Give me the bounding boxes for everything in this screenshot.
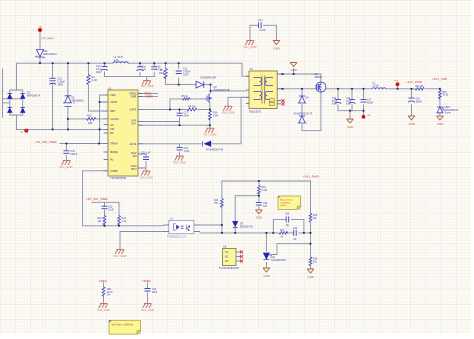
wire opto cathode gnd (120, 232, 163, 250)
svg-text:GND: GND (256, 215, 262, 219)
resistor R15 (258, 185, 261, 194)
svg-text:47uF: 47uF (346, 101, 352, 103)
wire C15 column (153, 63, 155, 76)
wire TIMER part (147, 283, 149, 304)
capacitor C15o (361, 100, 367, 103)
svg-text:Green: Green (445, 112, 452, 115)
svg-text:1.3k: 1.3k (122, 220, 127, 223)
svg-text:1.5nF: 1.5nF (184, 150, 191, 153)
ground U4 (263, 268, 270, 272)
capacitor C23 (102, 206, 108, 209)
wire VDD column (439, 89, 441, 116)
wire bridge frame (10, 90, 23, 129)
transformer T1 body (249, 71, 277, 109)
node snubber junctions (178, 84, 180, 86)
svg-text:SMAJ58CA: SMAJ58CA (72, 100, 85, 103)
wire Q2 drain (211, 85, 246, 93)
svg-text:D9 BZT52C16-7F: D9 BZT52C16-7F (294, 112, 313, 115)
svg-text:R11 0R: R11 0R (416, 86, 424, 88)
wire R9 row (143, 110, 210, 111)
svg-text:DRT: DRT (110, 109, 116, 113)
wire C21 column (143, 154, 147, 171)
svg-text:ISO_GND: ISO_GND (244, 45, 257, 49)
wire cap return (338, 111, 364, 119)
svg-text:+12V_PWR: +12V_PWR (406, 80, 423, 84)
connector U5 body (223, 249, 237, 266)
svg-text:C20: C20 (285, 214, 290, 216)
svg-text:PS2561DL1-1-V: PS2561DL1-1-V (167, 235, 186, 239)
wire opto collector (200, 224, 222, 226)
svg-text:GND: GND (437, 122, 443, 126)
svg-text:1.2A: 1.2A (114, 59, 119, 62)
capacitor C10 bulk (101, 67, 108, 71)
svg-text:1uF: 1uF (263, 206, 268, 208)
wire T1 pin4 to gnd (228, 97, 246, 106)
wire R24 column (118, 202, 120, 226)
svg-text:ISO_GND: ISO_GND (60, 165, 73, 169)
svg-text:TIMER: TIMER (142, 279, 151, 283)
svg-text:ISO_GND: ISO_GND (114, 254, 127, 258)
resistor R16 (309, 213, 312, 222)
IC U1 pins (104, 94, 143, 171)
svg-text:220nF: 220nF (71, 153, 78, 156)
svg-text:TRIAA: TRIAA (110, 142, 118, 146)
note box fsw (109, 320, 141, 334)
node source junctions (209, 109, 211, 111)
wire HT input drop (39, 32, 41, 64)
wire Q1 gate loop (302, 89, 321, 131)
wire C15b column (363, 89, 365, 111)
svg-text:Set Fsw = 100KHz: Set Fsw = 100KHz (112, 322, 134, 326)
svg-text:4054xx: 4054xx (315, 76, 324, 79)
svg-text:R15: R15 (262, 187, 267, 189)
wire C23 R21 column (104, 202, 106, 226)
resistor R27 (439, 90, 442, 99)
junction dots group (39, 62, 441, 244)
svg-text:+5V1_VDD: +5V1_VDD (432, 77, 448, 81)
svg-text:COMP: COMP (110, 169, 118, 173)
wire R23 column (221, 181, 223, 233)
ground iso C19 (62, 161, 71, 166)
svg-text:P0604N06C4B: P0604N06C4B (214, 89, 230, 92)
svg-text:0.1uF: 0.1uF (108, 209, 115, 212)
ground R19 (307, 269, 314, 273)
testpoint TP6 (396, 82, 400, 86)
diode D6 (196, 81, 204, 88)
svg-text:5.10k: 5.10k (262, 190, 268, 192)
svg-text:U3: U3 (170, 217, 174, 221)
svg-text:+5V_ISO_VREF: +5V_ISO_VREF (86, 197, 108, 201)
svg-text:C22: C22 (293, 228, 298, 230)
Y capacitor CY1 (259, 22, 262, 28)
transistor Q2 (206, 94, 212, 103)
svg-text:+5V1_PWR: +5V1_PWR (303, 175, 320, 179)
svg-text:GND: GND (308, 275, 314, 279)
svg-text:0.1R: 0.1R (213, 115, 218, 118)
capacitor C11 (176, 71, 182, 74)
svg-text:DN: DN (133, 154, 137, 158)
resistor R14 sense (208, 111, 211, 121)
testpoint TP5 (362, 115, 366, 119)
wire +5V1_PWR rail (222, 180, 311, 182)
svg-text:ISO_GND: ISO_GND (97, 308, 110, 312)
ground iso T1 pin4 (223, 106, 232, 111)
resistor R19 (309, 257, 312, 266)
ground iso C24 (143, 304, 152, 309)
svg-text:TL431AIDCKR: TL431AIDCKR (271, 259, 287, 262)
svg-text:GND: GND (291, 68, 297, 72)
svg-text:GRLP508-H2: GRLP508-H2 (445, 110, 460, 112)
TVS D5 (63, 96, 74, 107)
wire bias winding row (143, 97, 247, 144)
node feedback junctions (258, 180, 260, 182)
zener D9 (298, 116, 306, 123)
wire C14 column (351, 89, 353, 111)
wire comp net top (92, 201, 119, 203)
wire Y-cap left (250, 25, 259, 40)
resistor R11 (415, 88, 425, 91)
TVS D3 input (35, 50, 45, 59)
connector U5 NC marks (240, 250, 243, 253)
svg-text:39nF: 39nF (152, 292, 158, 294)
svg-text:GND: GND (347, 125, 353, 129)
wire DC- bottom bus (17, 128, 104, 130)
svg-text:C17: C17 (367, 100, 372, 102)
resistor R5 (183, 98, 190, 100)
svg-text:C14: C14 (346, 98, 351, 100)
resistor R12 (87, 118, 97, 121)
svg-text:R19: R19 (313, 259, 318, 261)
wire fb divider column (310, 181, 312, 269)
transformer T1 pins (246, 74, 281, 104)
svg-text:10.0k: 10.0k (443, 95, 449, 97)
ground iso filter (142, 81, 151, 86)
svg-text:T1: T1 (250, 67, 254, 71)
capacitor C16f (137, 67, 144, 71)
wire C17 column (143, 110, 180, 126)
svg-text:C24: C24 (152, 289, 157, 291)
ground C16o (408, 116, 415, 120)
svg-text:C13: C13 (332, 98, 337, 100)
svg-text:400V: 400V (96, 71, 102, 74)
note box feedback text (280, 199, 293, 208)
svg-text:CY1: CY1 (258, 19, 263, 22)
svg-text:100nF: 100nF (367, 102, 374, 104)
wire D5 column (67, 63, 69, 129)
svg-text:R9 10k: R9 10k (188, 105, 196, 108)
svg-text:RL: RL (110, 158, 114, 162)
node secondary junctions (282, 73, 284, 75)
svg-text:1uF: 1uF (142, 69, 147, 72)
capacitor C10 label (96, 65, 102, 74)
svg-text:KBP206G-A: KBP206G-A (27, 95, 41, 98)
IC U1 pin names (110, 91, 137, 172)
svg-text:BP: BP (110, 131, 114, 135)
svg-text:R17: R17 (280, 230, 285, 232)
svg-text:VW: VW (110, 127, 115, 131)
svg-text:D6 BAS40-04T: D6 BAS40-04T (201, 76, 218, 79)
wire COMP run (83, 171, 164, 226)
capacitor C26 (256, 203, 262, 206)
svg-text:ISO_GND: ISO_GND (173, 160, 186, 164)
resistor R9 (187, 108, 197, 111)
ground iso C18 (175, 156, 184, 161)
svg-text:install/tune: install/tune (280, 201, 291, 204)
svg-text:ISO_GND: ISO_GND (141, 308, 154, 312)
wire pin1 vertical (100, 95, 104, 144)
svg-text:AC: AC (110, 123, 114, 127)
svg-text:VDD: VDD (110, 93, 116, 97)
svg-text:MODE: MODE (110, 150, 118, 154)
svg-text:28.7k: 28.7k (107, 292, 113, 294)
svg-text:NC: NC (225, 256, 229, 259)
inductor L3 (113, 62, 128, 63)
svg-text:100uF: 100uF (416, 101, 423, 103)
capacitor C20 (286, 216, 289, 222)
svg-text:C21 1uF: C21 1uF (141, 152, 151, 155)
svg-text:D7 BAS516-TW: D7 BAS516-TW (206, 149, 224, 152)
transformer T1 NC marks (281, 99, 284, 102)
svg-text:May need to: May need to (280, 199, 293, 202)
capacitor C14 (349, 100, 356, 104)
wire fb bus (200, 232, 311, 234)
svg-text:ACTE: ACTE (130, 142, 137, 146)
capacitor C12 (49, 78, 56, 84)
wire filter return (105, 77, 155, 81)
svg-text:TNY287PGR: TNY287PGR (110, 176, 126, 180)
svg-text:R27: R27 (443, 92, 448, 94)
svg-text:TLV431SNDCKR: TLV431SNDCKR (219, 266, 239, 270)
wire U5 stubs (236, 252, 241, 261)
svg-text:47uF: 47uF (332, 101, 338, 103)
resistor R22 (102, 287, 105, 297)
optocoupler U3 pins (163, 225, 200, 232)
svg-text:U4A: U4A (271, 256, 276, 259)
ground iso R22 (99, 304, 108, 309)
diode D8 (233, 221, 238, 227)
svg-text:100V: 100V (183, 74, 189, 77)
wire R12 row (68, 118, 104, 120)
svg-text:6.3V: 6.3V (346, 104, 351, 106)
optocoupler U3 internals (174, 224, 191, 231)
capacitor C17 (177, 113, 183, 116)
wire output rail (281, 88, 440, 90)
wire T1 primary top (242, 63, 246, 76)
svg-text:2.2uH: 2.2uH (373, 84, 380, 87)
wire R15 column (258, 181, 260, 210)
ground iso C21 (141, 171, 150, 176)
svg-text:R23: R23 (214, 200, 219, 202)
wire FREQ stub (139, 93, 158, 95)
capacitor C13 label (332, 98, 338, 106)
wire C16 column (139, 63, 141, 76)
svg-text:100k: 100k (159, 72, 165, 75)
svg-text:450V: 450V (58, 84, 64, 87)
wire C16 column (411, 89, 413, 116)
wire TL431 anode (265, 263, 267, 269)
port HT_input dot (38, 28, 42, 32)
wire R7 column (165, 63, 167, 84)
svg-text:ISO_GND: ISO_GND (222, 111, 235, 115)
wire AC line left edge (3, 69, 23, 117)
zener D4 (298, 96, 306, 103)
svg-text:C16: C16 (416, 99, 421, 101)
svg-text:TIME: TIME (130, 94, 136, 98)
svg-text:NC: NC (225, 260, 229, 263)
svg-text:750315371: 750315371 (249, 109, 263, 113)
node bus junctions (39, 62, 41, 64)
svg-text:NC: NC (225, 251, 229, 254)
capacitor C13 (335, 100, 342, 104)
ground Y-cap (273, 41, 280, 45)
wire Q2 source sense (143, 103, 210, 128)
svg-text:HT_input: HT_input (42, 36, 54, 40)
svg-text:SMDJ440CA: SMDJ440CA (43, 53, 57, 56)
wire main HV bus (17, 63, 243, 90)
svg-text:GND: GND (274, 47, 280, 51)
ground iso Q2 source (205, 128, 214, 133)
svg-text:GND: GND (409, 122, 415, 126)
ground iso Y-cap (245, 41, 254, 46)
svg-text:ISO_GND: ISO_GND (204, 132, 217, 136)
op IC U1 controller body (108, 90, 138, 176)
svg-text:U1: U1 (108, 86, 112, 90)
svg-text:GND: GND (263, 274, 269, 278)
svg-text:1%: 1% (107, 295, 110, 297)
capacitor C12 label (58, 78, 66, 87)
ground LED1 (437, 116, 444, 120)
wire T1 secondary top (281, 74, 321, 82)
wire C19 drop (65, 144, 67, 161)
node pin1 taps (99, 101, 101, 103)
capacitor C24 (145, 289, 151, 292)
note box feedback (278, 196, 301, 210)
svg-text:R5 1k: R5 1k (182, 95, 189, 98)
connector U5 pin names (225, 251, 229, 263)
svg-text:RTN: RTN (131, 167, 136, 171)
wire C12 column (52, 63, 54, 129)
resistor R24 (118, 216, 121, 226)
wire C11 column (178, 63, 180, 84)
capacitor C21 (143, 157, 149, 160)
shunt U4 TL431 (263, 253, 272, 260)
wire C18 drop (179, 144, 181, 156)
svg-text:+5V_ISO_VREF: +5V_ISO_VREF (35, 140, 57, 144)
transistor Q1 (316, 82, 326, 92)
wire snubber row (166, 84, 211, 86)
capacitor C14 label (346, 98, 352, 106)
svg-text:U5: U5 (223, 245, 227, 249)
svg-text:1M: 1M (98, 220, 101, 223)
capacitor C19 (63, 151, 69, 154)
wire gate drive (170, 99, 206, 110)
wire TL431 cathode (265, 233, 267, 251)
transformer T1 core (262, 76, 265, 104)
capacitor C15f (151, 67, 157, 69)
wire C13 column (337, 89, 339, 111)
resistor R17 (279, 232, 288, 235)
resistor R21 (103, 216, 106, 226)
wire TL431 ref (272, 244, 311, 255)
ground C26 (256, 210, 263, 214)
svg-text:TIMER: TIMER (145, 95, 153, 99)
svg-text:CLASN: CLASN (110, 117, 119, 121)
svg-text:20R: 20R (88, 122, 93, 125)
wire comp loop (273, 219, 304, 233)
svg-text:ISO_GND: ISO_GND (141, 84, 154, 88)
node bottom bus junctions (52, 129, 54, 131)
ground iso opto (115, 250, 124, 255)
capacitor C16o (408, 98, 415, 102)
ground output caps (347, 119, 354, 123)
svg-text:6.3V: 6.3V (332, 104, 337, 106)
resistor R4 (87, 75, 90, 85)
LED1 label (445, 107, 460, 115)
wire FREQ part (103, 283, 105, 304)
port DC- stem (25, 129, 27, 130)
inductor L1 (372, 87, 386, 90)
svg-text:R12: R12 (87, 115, 92, 118)
resistor R7 (164, 69, 167, 79)
wire TIMER stub (139, 95, 158, 97)
wire C10 column (104, 63, 106, 76)
capacitor C22 (294, 230, 297, 236)
wire TP stub (397, 86, 399, 89)
svg-text:ASY: ASY (131, 121, 136, 125)
svg-text:LED1: LED1 (445, 107, 451, 109)
capacitor C18 (177, 147, 183, 150)
diode D7 (203, 141, 211, 146)
svg-text:22nF: 22nF (184, 115, 190, 118)
svg-text:2.2nF: 2.2nF (260, 29, 267, 32)
LED1 (437, 107, 445, 113)
svg-text:ASOP: ASOP (110, 100, 117, 104)
transformer T1 windings (254, 78, 274, 100)
svg-text:GATE: GATE (130, 108, 137, 112)
ground secondary (290, 63, 297, 67)
svg-text:2.2M: 2.2M (92, 79, 97, 82)
bridge D1 diodes (8, 94, 25, 113)
svg-text:ISO_GND: ISO_GND (140, 175, 153, 179)
port DC- dot (24, 129, 28, 133)
optocoupler U3 body (169, 220, 194, 233)
svg-text:FREQ: FREQ (99, 279, 108, 283)
node R12 tap (67, 118, 69, 120)
svg-text:R16: R16 (313, 215, 318, 217)
capacitor C11 label (183, 68, 191, 77)
wire +5V_ISO_VREF net (60, 143, 104, 145)
wire R4 column (88, 63, 103, 111)
wire D8 net (235, 196, 259, 233)
wire Y-cap right (264, 25, 277, 40)
wire secondary gnd stub (293, 69, 295, 75)
svg-text:values: values (280, 205, 287, 207)
node comp junctions (104, 225, 106, 227)
svg-text:C26: C26 (263, 203, 268, 205)
transformer T1 NC boxes (269, 99, 274, 102)
svg-text:BAS516-TW: BAS516-TW (240, 225, 254, 228)
resistor R23 (220, 198, 223, 207)
svg-text:R22: R22 (107, 289, 112, 291)
